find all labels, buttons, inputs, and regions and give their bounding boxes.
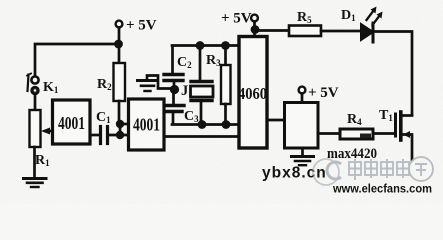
IC U4 (max4420) — [285, 103, 319, 149]
resistor R2 — [114, 48, 126, 124]
LED D1 — [361, 7, 383, 43]
wire C1 to U2 input with junction dots — [109, 120, 128, 139]
wire 4060 output to max4420 — [267, 119, 284, 122]
wire: top-left rail from +5V node left and down to K1 — [35, 44, 118, 75]
capacitor C1 — [101, 127, 108, 144]
node A: oscillator top net wire — [172, 41, 239, 50]
svg-text:+ 5V: + 5V — [308, 85, 339, 101]
ground under R1 — [24, 147, 47, 187]
watermark stamp circle — [313, 159, 339, 185]
resistor R5 — [289, 26, 321, 37]
wire +5V node to R5 — [255, 29, 289, 32]
watermark elecfans logo and text — [327, 157, 433, 181]
wire max4420 to R4 — [318, 132, 339, 135]
wiper arrow from gate U1 input into R1 — [41, 128, 53, 135]
wire R5 to D1 — [321, 30, 361, 33]
node: C2/C3/ground junction — [170, 85, 179, 94]
+5V terminal (right) — [299, 87, 306, 102]
wire U2 output to 4060 — [164, 135, 239, 138]
wire K1 to R1 — [34, 94, 37, 110]
svg-text:+ 5V: + 5V — [221, 11, 252, 27]
node B: oscillator bottom net wire — [172, 120, 239, 129]
crystal J — [191, 47, 214, 120]
wire D1 to T1 drain (right rail) — [375, 32, 413, 116]
wire U1 output to C1 — [90, 134, 99, 137]
svg-text:J: J — [181, 83, 188, 99]
capacitor C2 — [164, 47, 183, 86]
capacitor C3 — [165, 94, 185, 124]
resistor R4 — [340, 129, 373, 139]
svg-text:4060: 4060 — [238, 84, 267, 103]
svg-text:+ 5V: + 5V — [126, 18, 157, 34]
svg-text:4001: 4001 — [58, 113, 85, 133]
transistor T1 (power MOSFET) — [396, 112, 413, 160]
wire R4 to T1 gate — [373, 132, 395, 135]
IC U2 (4001 gate) — [129, 99, 165, 150]
svg-text:4001: 4001 — [133, 115, 160, 135]
svg-text:ybx8.cn: ybx8.cn — [262, 165, 327, 182]
switch K1 — [27, 74, 39, 95]
IC U3 (4060) — [239, 37, 267, 149]
IC U1 (4001 gate) — [53, 100, 91, 144]
resistor R1 (potentiometer body) — [30, 110, 41, 147]
resistor R3 — [221, 47, 231, 122]
ground (middle, at C2/C3 junction) — [138, 76, 173, 92]
svg-text:www.elecfans.com: www.elecfans.com — [332, 184, 432, 196]
+5V terminal (top middle) — [251, 15, 260, 36]
ground under max4420 — [292, 148, 314, 165]
svg-text:max4420: max4420 — [327, 146, 377, 162]
+5V terminal (top left) — [114, 21, 123, 49]
